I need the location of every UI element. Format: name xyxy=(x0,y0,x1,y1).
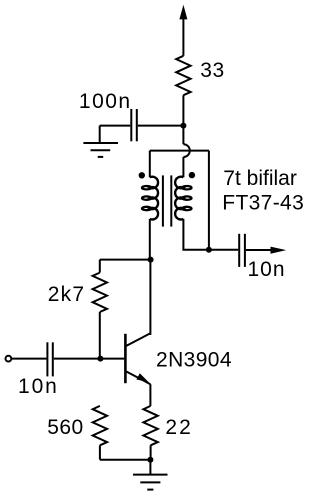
svg-text:2N3904: 2N3904 xyxy=(156,349,232,372)
node ground dot xyxy=(147,457,153,463)
resistor R 22 xyxy=(143,406,157,460)
transformer core xyxy=(163,175,171,226)
wire right rail xyxy=(208,151,210,250)
svg-text:2k7: 2k7 xyxy=(48,283,85,306)
node base dot xyxy=(97,356,103,362)
wire output xyxy=(209,249,238,251)
ground (upper left) xyxy=(83,143,118,157)
svg-text:10n: 10n xyxy=(18,375,59,398)
svg-text:10n: 10n xyxy=(248,258,286,281)
capacitor C 10n output xyxy=(239,234,271,267)
transistor Q 2N3904 xyxy=(125,333,150,384)
wire to ground left xyxy=(99,126,101,143)
wire to ground bottom xyxy=(149,460,151,475)
wire input xyxy=(12,358,47,360)
svg-text:7t bifilar: 7t bifilar xyxy=(223,167,297,190)
node supply/100n dot xyxy=(180,123,186,129)
resistor R 2k7 xyxy=(93,260,107,359)
transformer left winding xyxy=(142,151,158,260)
input terminal xyxy=(5,356,11,362)
wire emitter down xyxy=(149,384,151,406)
wire collector xyxy=(149,260,151,334)
wire supply to primary xyxy=(182,157,184,177)
ground (bottom) xyxy=(133,475,168,490)
wire bottom xyxy=(100,459,151,461)
phasing dot left xyxy=(139,172,145,178)
svg-text:100n: 100n xyxy=(79,90,132,113)
phasing dot right xyxy=(189,172,195,178)
output arrow xyxy=(271,247,287,254)
supply arrow xyxy=(179,5,187,56)
wire collector node link xyxy=(100,259,151,261)
wire collector up xyxy=(149,333,151,335)
svg-text:22: 22 xyxy=(165,416,192,439)
resistor R 33 xyxy=(176,56,190,95)
capacitor C 10n input xyxy=(47,342,124,376)
svg-text:FT37-43: FT37-43 xyxy=(222,192,304,215)
transformer T1 top link xyxy=(150,150,209,152)
svg-text:33: 33 xyxy=(200,59,224,82)
resistor R 560 xyxy=(93,406,107,460)
capacitor C 100n xyxy=(100,109,184,141)
svg-text:560: 560 xyxy=(47,416,84,439)
wire hop (supply over link) xyxy=(183,144,189,157)
transformer right winding xyxy=(175,177,209,250)
node collector dot xyxy=(148,257,154,263)
wire supply column xyxy=(182,95,184,144)
node output dot xyxy=(206,247,212,253)
